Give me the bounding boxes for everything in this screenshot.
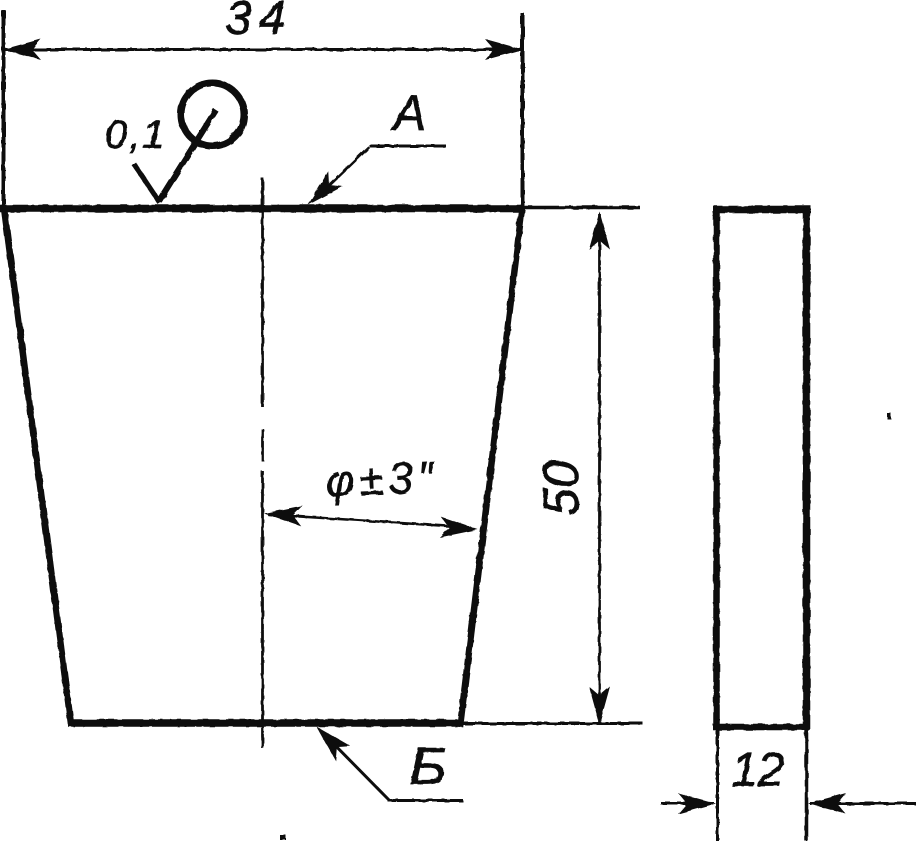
trapezoid left edge bbox=[4, 208, 71, 724]
flatness value 0,1 bbox=[105, 113, 167, 157]
svg-text:Б: Б bbox=[409, 738, 447, 796]
dim 50 dimension line bbox=[598, 214, 601, 722]
dim 12 right arrow line bbox=[810, 802, 916, 805]
flatness symbol leader bbox=[159, 110, 216, 201]
dim 12 right arrowhead bbox=[808, 793, 846, 814]
side view outline bbox=[713, 206, 811, 730]
label A leader bbox=[316, 147, 369, 198]
label Б arrowhead bbox=[309, 719, 351, 761]
dim 34 arrowhead left bbox=[3, 39, 41, 60]
surface label A bbox=[390, 85, 426, 141]
svg-text:34: 34 bbox=[225, 0, 292, 45]
dim 34 extension line right bbox=[521, 13, 525, 206]
dim 50 arrowhead bottom bbox=[589, 687, 610, 725]
dim 12 value label bbox=[731, 744, 784, 797]
dim 12 extension line right bbox=[805, 730, 809, 841]
surface label Б bbox=[409, 738, 447, 796]
label A arrowhead bbox=[301, 171, 343, 212]
dim 34 dimension line bbox=[3, 48, 523, 51]
label Б leader bbox=[323, 733, 389, 800]
dim 34 value label bbox=[225, 0, 292, 45]
dim 34 extension line left bbox=[2, 10, 6, 206]
trapezoid right edge bbox=[460, 208, 522, 727]
dim 50 value label bbox=[533, 460, 589, 516]
vertical centerline bbox=[261, 178, 264, 748]
label A underline bbox=[369, 145, 446, 148]
angle dim line bbox=[268, 515, 471, 528]
trapezoid bottom edge bbox=[68, 719, 462, 727]
dim 34 arrowhead right bbox=[485, 39, 523, 60]
angle value phi ±3" bbox=[325, 453, 440, 507]
label Б underline bbox=[388, 799, 463, 802]
dim 12 left arrowhead bbox=[678, 793, 716, 814]
scan speck right bbox=[887, 413, 891, 419]
svg-text:0,1: 0,1 bbox=[105, 113, 167, 157]
svg-text:φ±3″: φ±3″ bbox=[325, 453, 440, 507]
angle dim arrowhead right bbox=[439, 517, 478, 540]
flatness symbol circle bbox=[181, 83, 244, 146]
dim 50 arrowhead top bbox=[589, 212, 610, 250]
angle dim arrowhead left bbox=[263, 503, 302, 526]
svg-text:12: 12 bbox=[731, 744, 784, 797]
top edge thin extension bbox=[524, 206, 640, 210]
dim 12 extension line left bbox=[716, 730, 719, 841]
flatness symbol check stroke bbox=[134, 164, 160, 203]
bottom edge thin extension bbox=[462, 722, 643, 725]
dim 12 left arrow line bbox=[661, 802, 714, 805]
scan speck bottom left bbox=[280, 835, 286, 840]
svg-text:50: 50 bbox=[533, 460, 589, 516]
svg-text:А: А bbox=[390, 85, 426, 141]
trapezoid top edge bbox=[0, 205, 524, 213]
